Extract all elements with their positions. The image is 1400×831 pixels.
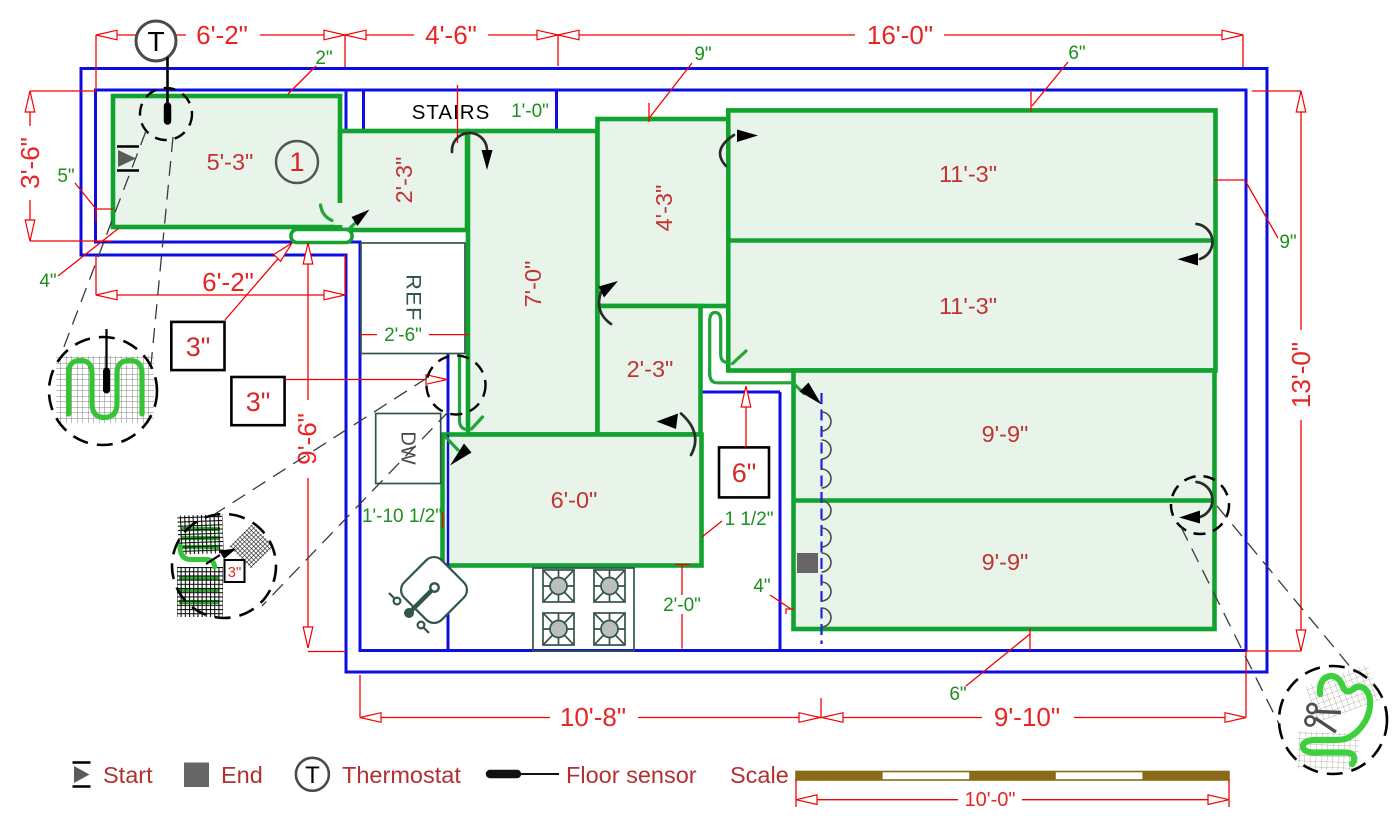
end legend symbol	[184, 763, 209, 788]
hall interior wall horizontal	[699, 391, 780, 394]
svg-text:Scale: Scale	[730, 762, 789, 788]
svg-text:3": 3"	[246, 387, 271, 417]
room 2'-3" upper	[340, 131, 467, 230]
pipe into 6'-0" room	[446, 437, 459, 450]
stairs right wall stub	[362, 90, 365, 131]
6" box	[719, 447, 769, 497]
svg-text:9'-6": 9'-6"	[292, 413, 322, 465]
svg-text:2'-3": 2'-3"	[627, 356, 674, 382]
floor sensor legend symbol	[490, 770, 517, 779]
svg-text:3": 3"	[186, 332, 211, 362]
svg-text:4'-3": 4'-3"	[651, 185, 677, 232]
top extension lines	[95, 35, 97, 90]
svg-text:4": 4"	[39, 271, 56, 292]
folding door dashed line	[820, 393, 822, 644]
thermostat wire	[166, 57, 169, 104]
svg-text:REF: REF	[402, 274, 426, 322]
svg-text:T: T	[147, 26, 164, 57]
svg-text:11'-3": 11'-3"	[939, 293, 997, 319]
scale dimension	[796, 799, 1229, 801]
kitchen interior wall vertical left	[447, 354, 450, 651]
2'-0" dimension	[681, 566, 683, 649]
flow hop F7 (2'-3" lower to 6'-0")	[681, 414, 695, 456]
flow hop F4 (11'-3" divider)	[1197, 224, 1213, 259]
detail circle 3	[1279, 664, 1387, 774]
scale bar	[796, 772, 1229, 781]
detail target circle at sensor	[140, 88, 192, 140]
stove	[533, 568, 634, 651]
svg-text:16'-0": 16'-0"	[867, 20, 933, 50]
svg-text:4'-6": 4'-6"	[425, 20, 477, 50]
9'-6" dimension	[307, 243, 309, 648]
flow hop F3 (into 11'-3" room)	[720, 135, 734, 166]
svg-text:9'-9": 9'-9"	[982, 421, 1029, 447]
flow hop F2 (stairs into 7'-0")	[452, 133, 487, 152]
svg-text:1'-0": 1'-0"	[511, 101, 549, 122]
svg-text:2'-6": 2'-6"	[384, 325, 422, 346]
svg-text:10'-0": 10'-0"	[965, 789, 1016, 811]
13'-0" right dimension	[1300, 91, 1302, 651]
room 4'-3"	[598, 119, 729, 306]
3" box A	[171, 322, 224, 370]
folding door dashed line redraw over rooms	[820, 393, 822, 644]
inner wall outline (blue, L-shaped)	[96, 90, 1247, 651]
svg-text:5'-3": 5'-3"	[207, 149, 254, 175]
pipe stub into 9'-9"	[793, 383, 804, 394]
start symbol in room 1	[117, 145, 139, 148]
2'-6" dimension	[361, 334, 469, 336]
svg-text:Start: Start	[103, 762, 153, 788]
svg-text:1: 1	[289, 147, 304, 177]
DW box	[376, 414, 441, 484]
door gap in room1 right wall	[335, 203, 345, 225]
3'-6" vertical dimension	[29, 91, 31, 241]
svg-text:6": 6"	[949, 684, 966, 705]
svg-text:STAIRS: STAIRS	[412, 101, 491, 124]
svg-text:7'-0": 7'-0"	[520, 261, 546, 308]
outer wall outline (blue, L-shaped)	[81, 69, 1267, 673]
room 1 (5'-3")	[113, 96, 340, 227]
svg-text:4": 4"	[753, 576, 770, 597]
svg-text:11'-3": 11'-3"	[939, 161, 997, 187]
pipe stub crossing wall	[733, 351, 747, 364]
svg-text:9": 9"	[1279, 232, 1296, 253]
stairs left wall stub	[345, 90, 348, 131]
svg-text:3": 3"	[228, 564, 242, 581]
pipe at kitchen wall	[460, 356, 468, 430]
thermostat circle	[136, 21, 176, 61]
bottom dimensions	[360, 717, 1245, 719]
svg-text:T: T	[305, 762, 320, 789]
svg-text:13'-0": 13'-0"	[1286, 342, 1316, 408]
svg-text:10'-8": 10'-8"	[560, 702, 626, 732]
svg-text:3'-6": 3'-6"	[15, 137, 45, 189]
room 6'-0"	[443, 435, 702, 566]
room 7'-0"	[468, 131, 598, 435]
svg-text:DW: DW	[397, 431, 419, 464]
leader dashes to detail circle 1	[62, 131, 146, 352]
kitchen interior wall vertical right	[779, 392, 782, 651]
faucet	[409, 590, 432, 613]
svg-text:9'-9": 9'-9"	[982, 549, 1029, 575]
svg-text:9'-10": 9'-10"	[994, 702, 1060, 732]
svg-text:6'-2": 6'-2"	[202, 267, 254, 297]
svg-text:1'-10 1/2": 1'-10 1/2"	[362, 506, 442, 527]
svg-text:Thermostat: Thermostat	[342, 762, 461, 788]
detail circle 1	[49, 329, 157, 445]
top dimension line	[96, 34, 1243, 36]
thermostat legend symbol	[296, 758, 329, 791]
svg-text:5": 5"	[57, 166, 74, 187]
hairpin pipe in hall	[710, 313, 728, 376]
sink (rotated rounded square)	[397, 553, 472, 628]
circled number 1	[276, 141, 318, 183]
svg-text:9": 9"	[694, 44, 711, 65]
svg-text:1 1/2": 1 1/2"	[724, 509, 773, 530]
room 2'-3" lower	[598, 306, 701, 435]
svg-text:6'-2": 6'-2"	[196, 20, 248, 50]
pipe stub at room1 door	[321, 205, 333, 221]
flow arrow F1 (up-right at room1 door)	[352, 210, 370, 227]
REF box	[361, 243, 465, 354]
end square in 9'-9" lower	[797, 553, 818, 573]
svg-text:2'-3": 2'-3"	[391, 157, 417, 204]
svg-text:6'-0": 6'-0"	[551, 487, 598, 513]
rooms 11'-3" block	[728, 110, 1215, 370]
svg-text:6": 6"	[1068, 43, 1085, 64]
svg-text:6": 6"	[732, 458, 757, 488]
flow arrow F8 (into 6'-0")	[450, 444, 472, 466]
folding door arcs	[822, 412, 832, 627]
rooms 9'-9" block	[794, 371, 1215, 630]
floor sensor in room 1	[164, 106, 172, 121]
divider between 9'-9" rooms	[794, 498, 1215, 503]
door threshold (green rounded rect)	[291, 230, 352, 243]
svg-text:End: End	[221, 762, 263, 788]
flow hop F5 (9'-9" divider)	[1171, 476, 1229, 534]
svg-text:2": 2"	[315, 48, 332, 69]
flow hop F11 (4'-3" bottom-left)	[599, 292, 611, 324]
svg-text:Floor sensor: Floor sensor	[566, 762, 697, 788]
svg-text:2'-0": 2'-0"	[663, 595, 701, 616]
flow arrow F9 (into 9'-9")	[800, 383, 822, 405]
leader dashes to detail circle 2	[215, 378, 427, 514]
kitchen wall line over room 6-0	[447, 435, 449, 651]
divider between 11'-3" rooms	[728, 238, 1215, 243]
start legend symbol	[73, 761, 91, 764]
detail circle 2	[172, 514, 276, 618]
3" box B	[231, 377, 284, 425]
detail target circle kitchen	[427, 356, 486, 415]
second 6'-2" dimension	[96, 294, 345, 296]
leader dashes to detail circle 3	[1181, 527, 1280, 726]
